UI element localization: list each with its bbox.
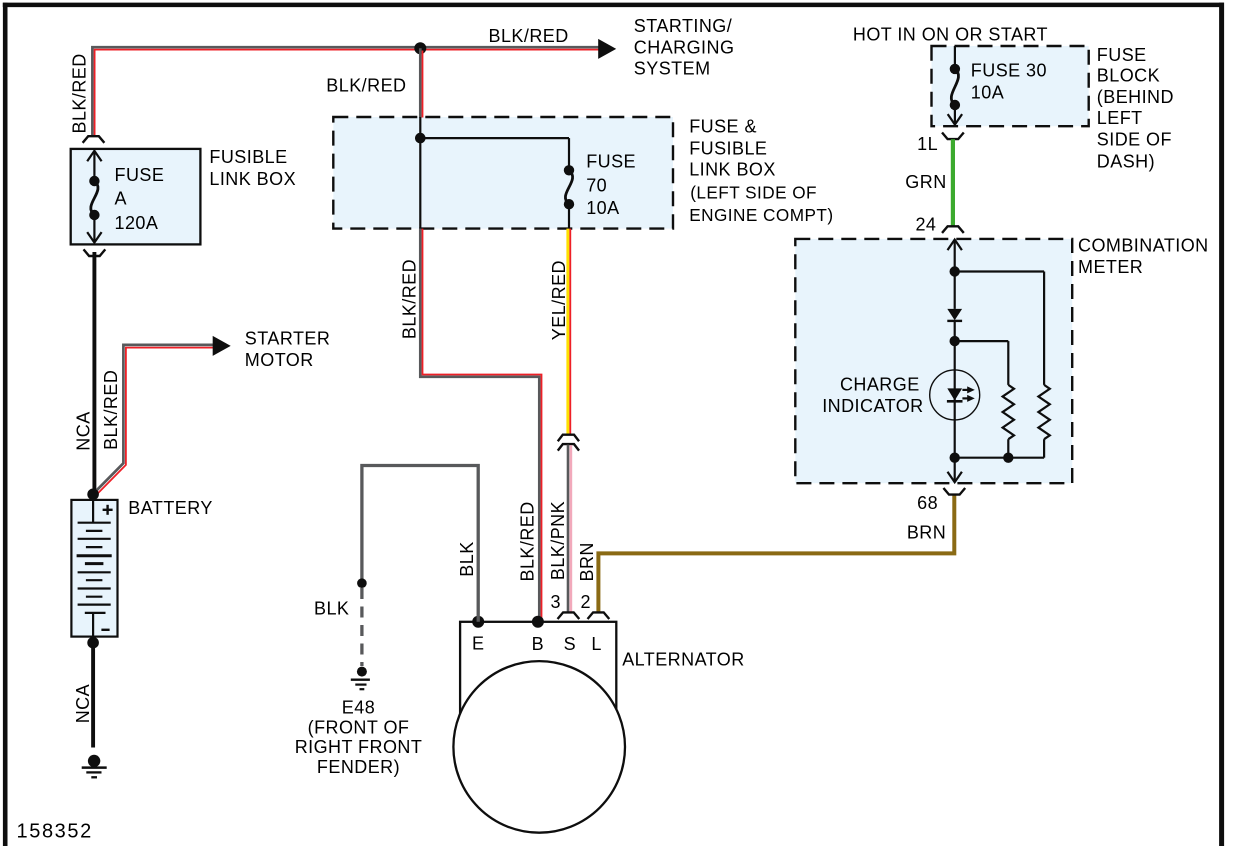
svg-text:SIDE OF: SIDE OF [1097,129,1172,149]
label FUSE BLOCK (BEHIND LEFT SIDE OF DASH) [1097,45,1174,171]
svg-text:YEL/RED: YEL/RED [549,260,569,340]
svg-text:NCA: NCA [74,411,94,450]
ground (battery negative) [82,755,107,778]
combination meter box (dashed) [795,239,1072,483]
svg-text:68: 68 [917,493,938,513]
svg-text:158352: 158352 [17,821,93,843]
svg-text:10A: 10A [971,83,1004,103]
wire diode to charge indicator [954,341,956,394]
svg-text:BLK/RED: BLK/RED [326,76,406,96]
svg-text:BLOCK: BLOCK [1097,66,1160,86]
node junction (bottom middle, combination meter) [1003,453,1013,463]
label BLK/RED (vertical, middle) [399,259,419,339]
label pin 3 [550,592,560,612]
label FUSE 70 10A [586,152,636,218]
svg-text:GRN: GRN [905,172,946,192]
svg-text:FUSE: FUSE [1097,45,1147,65]
wire BLK/PNK connector to alternator S (pink stripe) [570,445,573,612]
svg-text:DASH): DASH) [1097,151,1155,171]
label FUSIBLE LINK BOX [209,147,296,189]
battery minus sign [101,629,109,631]
wire BRN alternator L to combination meter [598,496,954,613]
wire GRN fuse block to combination meter [951,139,955,227]
label 68 [917,493,938,513]
label CHARGE INDICATOR [822,375,923,416]
svg-text:2: 2 [580,592,590,612]
label FUSE &amp; FUSIBLE LINK BOX (LEFT SIDE OF ENGINE COMPT) [689,116,833,225]
wire BLK/RED junction down to dashed box (red stripe) [422,51,424,118]
svg-text:FUSE 30: FUSE 30 [971,61,1047,81]
charge indicator LED [930,370,980,420]
inline connector on S wire [559,435,579,450]
node junction (middle, combination meter) [950,336,960,346]
svg-text:FUSIBLE: FUSIBLE [209,147,287,167]
node battery negative junction [87,637,99,649]
label 1L [917,134,938,154]
label BLK/RED (vertical, at alternator B) [518,501,538,581]
svg-text:METER: METER [1078,257,1143,277]
svg-text:BLK/RED: BLK/RED [101,370,121,450]
label NCA (vertical, upper) [74,411,94,450]
svg-text:ENGINE COMPT): ENGINE COMPT) [689,205,833,225]
fuse A symbol [89,176,99,220]
wire BLK/RED to starter motor (red stripe) [96,348,213,495]
node junction (top, combination meter) [950,266,960,276]
wire into combination meter with up arrow [948,240,962,272]
svg-text:24: 24 [915,215,936,235]
svg-text:CHARGE: CHARGE [840,375,920,395]
svg-text:10A: 10A [586,198,619,218]
connector 24 at combination meter [943,226,963,232]
label BLK/PNK (vertical) [548,501,568,580]
svg-text:MOTOR: MOTOR [245,350,314,370]
connector above fusible link box [83,136,103,142]
wire junction to right resistor branch [955,272,1044,385]
fuse 70 symbol [564,165,574,209]
bottom rail wire [955,457,1044,459]
svg-text:HOT IN ON OR START: HOT IN ON OR START [853,25,1048,45]
svg-text:FUSE &: FUSE & [689,116,757,136]
arrow to starting/charging system [598,39,616,59]
label STARTING/CHARGING SYSTEM [634,16,735,78]
svg-text:COMBINATION: COMBINATION [1078,236,1209,256]
label BLK/RED (vertical, left) [69,53,89,133]
wire BLK/RED junction down to dashed box (gray) [419,48,422,117]
node junction on BLK/RED feed [414,42,426,54]
connector at alternator S [558,612,578,618]
battery plates [77,501,112,636]
svg-text:BLK: BLK [457,541,477,576]
svg-text:NCA: NCA [73,684,93,723]
svg-text:1L: 1L [917,134,938,154]
label BLK (horizontal) [314,599,349,619]
label BLK (vertical, at alternator E) [457,541,477,576]
svg-text:(FRONT OF: (FRONT OF [308,718,410,738]
fuse & fusible link box (dashed) [333,117,673,229]
wire NCA battery to ground [91,643,95,748]
label E48 (FRONT OF RIGHT FRONT FENDER) [295,698,423,778]
svg-text:3: 3 [550,592,560,612]
wire YEL/RED fuse 70 to connector (red stripe) [569,229,571,435]
svg-text:E48: E48 [342,698,375,718]
connector 1L below fuse block [943,133,963,139]
node alternator B terminal [532,616,544,628]
wire right resistor to bottom rail [1043,439,1045,458]
label BLK/RED (above dashed box) [326,76,406,96]
diode (combination meter) [947,309,962,341]
wire charge indicator to bottom junction [954,394,956,457]
svg-text:BRN: BRN [577,542,597,581]
svg-text:BRN: BRN [907,523,946,543]
svg-text:S: S [564,634,576,654]
wire BLK/RED fusible link box to starting system (gray) [92,47,598,136]
label BRN (horizontal) [907,523,946,543]
label BATTERY [128,498,213,518]
fusible link box (FUSE A enclosure) [71,149,201,245]
fuse 30 symbol [950,64,960,111]
resistor (right) [1038,385,1049,439]
svg-text:LINK BOX: LINK BOX [689,159,776,179]
label alternator terminals E B S L [472,634,602,654]
wire BLK alternator E to ground point [362,466,478,622]
wire into FUSE 30 [954,46,956,69]
battery plus sign [103,505,113,515]
label NCA (vertical, lower) [73,684,93,723]
svg-text:SYSTEM: SYSTEM [634,58,711,78]
svg-text:LEFT: LEFT [1097,108,1143,128]
svg-text:STARTING/: STARTING/ [634,16,732,36]
ground E48 [351,667,370,690]
wire main junction to diode [954,272,956,309]
label BRN (vertical, at alternator L) [577,542,597,581]
node battery positive junction [87,489,99,501]
wire middle resistor to bottom rail [1007,439,1009,458]
svg-text:B: B [532,634,544,654]
svg-text:FUSIBLE: FUSIBLE [689,138,767,158]
label FUSE 30 10A [971,61,1047,103]
wire BLK dashed to ground E48 [360,588,363,666]
svg-text:BLK/RED: BLK/RED [69,53,89,133]
wire BLK/RED dashed box to alternator B (red stripe) [423,229,542,622]
svg-text:STARTER: STARTER [245,329,330,349]
wire BLK/PNK connector to alternator S (gray) [567,445,570,613]
svg-text:LINK BOX: LINK BOX [209,169,296,189]
svg-text:ALTERNATOR: ALTERNATOR [622,650,745,670]
wire junction to middle resistor branch [955,341,1009,385]
wire YEL/RED fuse 70 to connector (yellow) [566,229,569,435]
resistor (middle) [1003,385,1014,439]
label COMBINATION METER [1078,236,1209,277]
svg-text:BLK/RED: BLK/RED [399,259,419,339]
label ALTERNATOR [622,650,745,670]
wire out of combination meter with down arrow [948,458,962,483]
connector below fusible link box [84,250,104,256]
wire BLK/RED dashed box to alternator B (gray) [420,229,539,622]
alternator circle [453,661,625,833]
label FUSE A 120A [115,165,165,233]
svg-text:BATTERY: BATTERY [128,498,213,518]
svg-text:(BEHIND: (BEHIND [1097,87,1174,107]
svg-text:RIGHT FRONT: RIGHT FRONT [295,737,423,757]
connector 68 below combination meter [944,489,964,495]
svg-text:BLK/RED: BLK/RED [489,26,569,46]
wire inside fuse & fusible link box (vertical) [419,117,421,229]
svg-text:E: E [472,634,484,654]
wire BLK/RED fusible link box to starting system (red stripe) [95,50,599,137]
wire fuse 70 to box edge [568,204,570,228]
node alternator E terminal [472,616,484,628]
wire junction to fuse 70 [420,138,569,170]
battery box [71,500,117,637]
wire NCA fusible link box to battery [92,252,96,494]
wire out of FUSE 30 with down arrow [948,105,962,125]
arrow to starter motor [213,336,231,356]
label 24 [915,215,936,235]
svg-text:BLK/PNK: BLK/PNK [548,501,568,580]
svg-text:INDICATOR: INDICATOR [822,396,923,416]
wire out of FUSE A with down arrow [87,215,101,243]
label 158352 [17,821,93,843]
svg-text:FUSE: FUSE [586,152,636,172]
label HOT IN ON OR START [853,25,1048,45]
svg-text:CHARGING: CHARGING [634,38,735,58]
label BLK/RED (vertical, starter branch) [101,370,121,450]
wire BLK/RED to starter motor (gray) [94,345,214,494]
node junction inside fuse & fusible link box [415,133,426,144]
svg-text:(LEFT SIDE OF: (LEFT SIDE OF [690,183,817,203]
label YEL/RED (vertical) [549,260,569,340]
svg-text:BLK: BLK [314,599,349,619]
svg-text:FENDER): FENDER) [317,757,400,777]
label BLK/RED (top horizontal) [489,26,569,46]
wire into FUSE A with up arrow [87,151,101,181]
node on BLK ground wire [357,578,367,588]
label GRN [905,172,946,192]
svg-text:L: L [591,634,601,654]
svg-text:120A: 120A [115,213,159,233]
fuse block box (dashed) [932,46,1089,126]
svg-text:70: 70 [586,176,607,196]
svg-text:FUSE: FUSE [115,165,165,185]
node junction (bottom, combination meter) [950,453,960,463]
label STARTER MOTOR [245,329,330,371]
connector at alternator L [588,612,608,618]
alternator terminal box [460,622,616,755]
svg-text:A: A [115,189,127,209]
svg-text:BLK/RED: BLK/RED [518,501,538,581]
label pin 2 [580,592,590,612]
